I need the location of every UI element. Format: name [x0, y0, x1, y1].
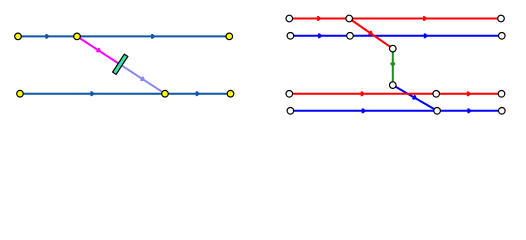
- node T white: [498, 91, 505, 98]
- node N white: [434, 108, 441, 115]
- node D yellow: [17, 90, 24, 97]
- arrow on lavender diagonal edge mid-E: [140, 76, 146, 82]
- wire: right row2 blue edge G-H: [290, 35, 350, 37]
- node H white: [347, 33, 354, 40]
- wire: right row4 blue edge N-O: [437, 110, 502, 112]
- green split bar marker: [113, 54, 128, 74]
- arrow on right row4 blue edge M-N: [362, 108, 366, 113]
- wire: left top edge B-C: [77, 35, 229, 37]
- arrow on left top edge B-C: [151, 34, 155, 39]
- node G white: [287, 33, 294, 40]
- arrow on red diagonal edge K-P: [368, 30, 374, 36]
- arrow on right row2 blue edge G-H: [318, 33, 322, 38]
- arrow on right row1 red edge K-L: [423, 16, 427, 21]
- node S white: [433, 91, 440, 98]
- node L white: [498, 15, 505, 22]
- arrow on green vertical edge P-Q: [390, 63, 395, 67]
- wire: lavender diagonal edge mid-E: [121, 65, 165, 94]
- wire: right row1 red edge K-L: [349, 18, 501, 20]
- node I white: [499, 33, 506, 40]
- node O white: [499, 108, 506, 115]
- arrow on right row1 red edge J-K: [317, 16, 321, 21]
- node F yellow: [227, 90, 234, 97]
- wire: right row4 blue edge M-N: [290, 110, 437, 112]
- arrow on magenta diagonal edge B-mid: [96, 48, 102, 54]
- node E yellow: [162, 90, 169, 97]
- wire: left top edge A-B: [18, 35, 77, 37]
- node R white: [286, 91, 293, 98]
- node M white: [287, 108, 294, 115]
- arrow on right row2 blue edge H-I: [424, 33, 428, 38]
- arrow on blue diagonal edge Q-N: [412, 95, 418, 101]
- arrow on left top edge A-B: [45, 34, 49, 39]
- node A yellow: [15, 33, 22, 40]
- node K white: [346, 15, 353, 22]
- arrow on left bottom edge D-E: [90, 91, 94, 96]
- node Q white: [390, 82, 397, 89]
- node J white: [286, 15, 293, 22]
- wire: green vertical edge P-Q: [392, 49, 394, 86]
- arrow on left bottom edge E-F: [196, 91, 200, 96]
- arrow on right row4 blue edge N-O: [467, 108, 471, 113]
- node B yellow: [74, 33, 81, 40]
- arrow on right row3 red edge R-S: [361, 91, 365, 96]
- wire: right row3 red edge R-S: [289, 93, 436, 95]
- wire: magenta diagonal edge B-mid: [77, 36, 121, 65]
- wire: left bottom edge D-E: [20, 93, 165, 95]
- wire: right row3 red edge S-T: [436, 93, 501, 95]
- wire: right row2 blue edge H-I: [350, 35, 502, 37]
- wire: left bottom edge E-F: [165, 93, 231, 95]
- wire: right row1 red edge J-K: [289, 18, 349, 20]
- node C yellow: [226, 33, 233, 40]
- wire: red diagonal edge K-P: [349, 19, 393, 49]
- arrow on right row3 red edge S-T: [467, 91, 471, 96]
- wire: blue diagonal edge Q-N: [393, 85, 437, 111]
- node P white: [390, 45, 397, 52]
